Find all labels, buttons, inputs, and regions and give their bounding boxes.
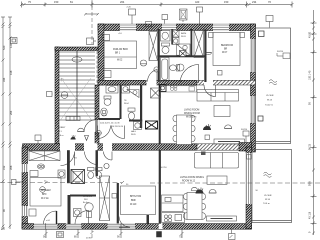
coffee table upper	[214, 106, 230, 117]
stairs	[59, 51, 97, 120]
svg-text:45 90: 45 90	[309, 31, 312, 38]
svg-text:BHF: BHF	[42, 194, 47, 196]
lamp parlor	[140, 60, 146, 66]
wall bath/bedroom vertical	[204, 29, 206, 82]
door gap kitchen	[157, 96, 160, 109]
door lower bedroom2	[119, 217, 130, 228]
label terrace lower	[263, 195, 272, 205]
svg-text:90/210: 90/210	[241, 129, 248, 131]
svg-text:u.04: u.04	[46, 220, 50, 222]
tag circle bedroom1	[40, 187, 46, 193]
label bedroom lower2	[130, 196, 141, 206]
window W-top3	[213, 24, 229, 31]
wall divider corner right	[239, 143, 252, 152]
squiggle terrace upper	[269, 80, 277, 85]
note 90 lower terrace	[256, 190, 259, 192]
closet hall	[151, 88, 161, 98]
wall top outer	[98, 24, 256, 31]
wall lower v1 bedroom/bath	[67, 150, 70, 183]
note upper terrace dim	[277, 51, 284, 53]
svg-text:423: 423	[195, 0, 200, 4]
doors	[44, 65, 216, 228]
squiggle terrace lower	[264, 172, 272, 177]
bed bedroom	[213, 33, 240, 66]
label wc2	[124, 100, 129, 105]
tv cabinet upper	[214, 139, 245, 144]
wall small rooms v2	[140, 85, 142, 128]
washer bath1	[173, 30, 180, 37]
wardrobe parlor	[149, 32, 158, 61]
shower corner bath1	[177, 44, 191, 55]
tag box top3	[266, 16, 273, 28]
svg-text:264: 264	[120, 0, 125, 4]
svg-text:74.02 m: 74.02 m	[265, 105, 273, 107]
dim numbers top	[28, 0, 271, 4]
shower corner wc2	[127, 90, 139, 98]
tag box wall v3	[112, 194, 117, 199]
sink bath2	[177, 64, 184, 71]
terrace upper	[256, 28, 291, 144]
tag box bottom2	[229, 229, 236, 240]
tag circle lower bath	[104, 163, 109, 168]
toilet bath2	[170, 65, 180, 72]
window lower-left 2	[22, 206, 28, 216]
svg-text:W.07: W.07	[222, 52, 228, 54]
lamp bedroom	[218, 71, 223, 76]
svg-text:W.06 27m: W.06 27m	[186, 117, 196, 119]
section line vertical top	[91, 0, 93, 44]
wall stair top	[55, 47, 98, 51]
bed parlor	[104, 41, 137, 69]
sink lower	[85, 203, 93, 218]
svg-text:VLOER: VLOER	[264, 195, 272, 197]
walls layer	[22, 24, 256, 230]
tag box top1	[127, 7, 136, 25]
kitchen island lower	[162, 195, 184, 212]
door lower entry 2	[85, 152, 98, 165]
svg-text:90 210: 90 210	[161, 167, 168, 169]
nightstand bedroom left	[209, 33, 214, 38]
label wc	[102, 115, 107, 117]
sofa lower	[195, 152, 239, 169]
toilet wc2	[128, 108, 135, 120]
svg-text:W.11F: W.11F	[130, 204, 137, 206]
dim left inner	[8, 17, 12, 229]
svg-text:264: 264	[9, 110, 13, 115]
window W-top1	[120, 24, 136, 31]
terrace upper lamp	[259, 31, 265, 37]
svg-text:100 1 45: 100 1 45	[309, 70, 312, 80]
label bedroom lower1	[41, 190, 51, 200]
stair center line	[76, 51, 78, 120]
dryer bath1	[173, 38, 180, 45]
bidet lower	[96, 168, 103, 179]
terrace lower	[252, 150, 292, 223]
label lobby	[58, 127, 66, 137]
section line horizontal left	[0, 181, 129, 187]
icon circle upper	[225, 125, 232, 129]
svg-text:45 118: 45 118	[309, 211, 312, 219]
tag box divider	[35, 135, 41, 144]
door gap divider 1	[60, 143, 75, 150]
wall bottom	[22, 224, 252, 230]
svg-text:DINING ROOM: DINING ROOM	[184, 113, 200, 115]
svg-text:74.6 m: 74.6 m	[263, 203, 270, 205]
door parlor	[148, 70, 158, 82]
dim numbers left	[2, 43, 13, 212]
bed lower2	[121, 186, 156, 215]
toilet bath1	[162, 43, 170, 54]
section mark bottom	[86, 231, 94, 240]
svg-text:90 8: 90 8	[309, 181, 312, 186]
label living upper	[184, 110, 200, 119]
note u04	[46, 220, 50, 222]
label parlor	[113, 48, 128, 62]
vanity bath1	[161, 31, 171, 42]
wall left lower unit	[22, 147, 28, 229]
terrace lower lamp	[258, 116, 263, 121]
triangle lobby	[85, 136, 89, 141]
svg-text:BATH: BATH	[181, 32, 187, 35]
terraces	[252, 28, 292, 223]
svg-text:BHDLEM: BHDLEM	[41, 190, 51, 192]
elec box lower living	[247, 155, 252, 160]
wall right lower unit	[246, 147, 252, 229]
svg-text:W.13: W.13	[267, 100, 273, 102]
bed lower1	[30, 178, 61, 207]
window bottom 2	[66, 223, 81, 229]
wall stair left	[55, 47, 59, 150]
washer wc2	[134, 122, 142, 130]
icon circle lower	[209, 189, 216, 193]
tag wd note lower	[243, 131, 249, 143]
chimney top	[180, 9, 188, 26]
svg-text:HALL: HALL	[131, 130, 137, 133]
note lower wd	[241, 129, 248, 131]
plant upper	[203, 124, 211, 130]
wall divider units light part	[197, 144, 246, 150]
section line horizontal right	[150, 182, 320, 184]
wall mid horizontal upper	[98, 80, 256, 86]
wall right upper unit	[251, 24, 256, 152]
svg-text:5.6 m: 5.6 m	[58, 135, 64, 137]
stair dashed line	[96, 51, 98, 120]
svg-text:2x14 4x47 1.20 x 2.0 B: 2x14 4x47 1.20 x 2.0 B	[100, 123, 120, 125]
dim numbers right	[309, 31, 312, 233]
window W-top2	[162, 24, 176, 31]
tag box top1b	[146, 22, 152, 27]
washer lower	[74, 209, 82, 217]
svg-text:20 90: 20 90	[86, 238, 92, 240]
wall lower v2	[96, 150, 98, 176]
shower lower	[71, 170, 85, 184]
door lobby	[84, 120, 97, 133]
door hall 2	[98, 126, 111, 139]
note sofa dim	[161, 167, 168, 169]
svg-text:W.02: W.02	[117, 60, 123, 62]
svg-text:418: 418	[9, 70, 13, 75]
sliding door right lower	[246, 153, 252, 204]
dining table lower	[183, 187, 205, 219]
svg-text:150: 150	[54, 0, 59, 4]
label ks entry	[74, 158, 77, 160]
tag box left2	[87, 38, 97, 45]
toilet lower	[88, 168, 95, 179]
glyph near parlor door	[154, 67, 159, 72]
wall lower h2	[70, 195, 96, 197]
svg-text:W.2 9m: W.2 9m	[41, 198, 49, 200]
label hall	[131, 130, 137, 136]
washer top wc2	[122, 86, 130, 94]
kitchen counter upper	[160, 85, 197, 93]
wall divider units dark part	[23, 144, 198, 150]
lamp glyph bedroom	[206, 53, 212, 55]
wall small rooms v3	[159, 85, 161, 144]
radiator lobby	[66, 117, 80, 121]
window bottom 3	[108, 223, 136, 229]
section line vertical bottom	[91, 228, 93, 240]
wall lower v1b	[68, 195, 71, 224]
tag circle stairs	[61, 92, 68, 99]
toilet wc1	[104, 96, 111, 105]
boiler lower	[58, 170, 65, 178]
svg-text:VLOER: VLOER	[266, 95, 274, 97]
kitchen ticks upper	[163, 84, 173, 88]
leader tags	[11, 7, 274, 240]
kitchen tall unit	[147, 215, 150, 224]
furniture lower unit	[29, 151, 251, 224]
annotation row hall	[100, 123, 123, 129]
wall lower v3 bath/bedroom2	[117, 183, 119, 224]
sink pedestal wc1	[101, 108, 107, 116]
kitchen counter lower	[162, 213, 185, 223]
tub bath2	[161, 58, 170, 82]
stair up arrows	[61, 78, 92, 120]
partition walls	[67, 29, 207, 224]
label bathroom lower	[83, 196, 92, 204]
svg-text:BPHLYOM: BPHLYOM	[130, 196, 141, 198]
window bottom 1	[34, 223, 58, 229]
dim top main	[20, 2, 294, 8]
door lower entry 1	[61, 152, 75, 166]
tag box left1	[11, 38, 18, 44]
wardrobe lower tall	[100, 176, 110, 221]
svg-text:BR 1: BR 1	[115, 53, 121, 55]
tag box lower-left	[12, 180, 23, 185]
nightstand parlor top	[102, 35, 110, 41]
door bedroom top	[204, 85, 216, 97]
wall small rooms h1	[99, 118, 120, 120]
svg-text:KITCHEN: KITCHEN	[83, 196, 92, 198]
tag box top2	[197, 7, 203, 26]
window lower-left 1	[22, 164, 28, 172]
vanity wc1	[106, 86, 118, 94]
door gap divider 2	[84, 143, 98, 150]
sofa upper	[197, 90, 239, 102]
wall lower v4 bedroom2/living	[159, 150, 161, 224]
lamp glyph bedroom1	[37, 164, 44, 169]
door hall 1	[112, 126, 125, 139]
note plus10	[118, 33, 122, 35]
wall parlor/bath vertical	[158, 29, 160, 82]
dim right	[311, 10, 317, 235]
svg-text:234: 234	[252, 0, 257, 4]
nightstand parlor bottom	[104, 71, 111, 78]
svg-text:120: 120	[9, 43, 13, 48]
tag box bottom3 dark	[157, 232, 162, 238]
dining table upper	[173, 115, 195, 145]
halfmoon lobby	[78, 128, 85, 131]
svg-text:56 23: 56 23	[309, 143, 312, 150]
wall bath internal vertical	[191, 29, 193, 57]
svg-text:312: 312	[2, 165, 6, 170]
window right bedroom	[250, 39, 256, 72]
dim left outer	[1, 17, 5, 230]
door lower bedroom1	[44, 211, 57, 224]
coffee table lower	[207, 176, 227, 184]
plant lobby	[71, 135, 76, 140]
wall stair right	[94, 85, 99, 146]
stair treads	[59, 52, 95, 120]
stair landing tag	[72, 57, 82, 62]
nightstand lower1 top	[30, 171, 38, 177]
elec box living	[205, 135, 210, 140]
svg-text:358: 358	[9, 165, 13, 170]
nightstand lower1	[29, 209, 36, 216]
door lower wc	[104, 152, 113, 161]
wall bath internal horizontal	[158, 55, 207, 57]
nightstand bedroom right	[240, 33, 245, 38]
lobby extras	[66, 117, 89, 141]
wall small rooms h2	[129, 120, 142, 122]
tag box top1c	[162, 15, 168, 24]
tv cabinet lower	[207, 216, 237, 221]
dim numbers bottom	[43, 236, 182, 239]
wardrobe lower hall	[29, 151, 60, 161]
svg-text:150: 150	[224, 0, 229, 4]
door bath2 big	[180, 65, 199, 84]
svg-text:W.16: W.16	[265, 199, 271, 201]
svg-text:LIVING ROOM: LIVING ROOM	[184, 110, 199, 112]
label living lower	[180, 177, 204, 183]
tag box bottom1	[57, 232, 64, 238]
door gap divider 3	[103, 143, 112, 150]
svg-text:ROOM W.12: ROOM W.12	[182, 181, 196, 183]
svg-text:BMF: BMF	[131, 200, 136, 202]
svg-text:LIVING ROOM DINING: LIVING ROOM DINING	[180, 177, 204, 179]
door lower bath	[75, 211, 89, 225]
svg-text:LOBBY: LOBBY	[58, 127, 66, 129]
plant lower	[196, 188, 204, 194]
label bedroom top	[221, 45, 233, 54]
wall small rooms v1	[120, 85, 122, 119]
vent shaft	[180, 51, 187, 57]
tag circle hall door	[96, 130, 102, 136]
dim top sub	[84, 13, 99, 16]
svg-text:BR: BR	[224, 49, 228, 51]
svg-text:BEDROOM: BEDROOM	[221, 45, 233, 47]
window right living	[250, 96, 256, 123]
svg-text:344: 344	[2, 77, 6, 82]
wall left upper unit	[98, 24, 104, 85]
label bath1	[181, 32, 187, 38]
svg-text:520: 520	[2, 45, 6, 50]
label terrace upper	[265, 95, 274, 107]
furniture upper unit	[101, 30, 245, 145]
wardrobe bedroom	[194, 30, 204, 58]
svg-text:90/210: 90/210	[277, 51, 284, 53]
svg-text:Ba 4m: Ba 4m	[83, 202, 89, 204]
shaft hall dark	[146, 121, 158, 129]
svg-text:PARLOR BDR: PARLOR BDR	[113, 48, 128, 51]
tag box stairs-left	[47, 92, 53, 97]
svg-text:14 220 90 14: 14 220 90 14	[112, 126, 123, 128]
door note upper terrace	[277, 53, 290, 59]
gap bottom small	[159, 223, 163, 229]
dim bottom marks	[45, 229, 233, 238]
